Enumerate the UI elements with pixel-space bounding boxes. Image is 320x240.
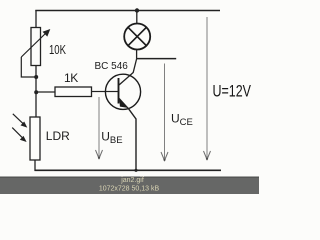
junction dot emitter to bottom rail bbox=[134, 169, 137, 172]
svg-text:BC 546: BC 546 bbox=[95, 61, 129, 72]
transistor base wire inside circle bbox=[106, 91, 119, 93]
emitter wire to bottom rail bbox=[128, 109, 136, 171]
top rail wire bbox=[35, 10, 220, 12]
transistor base bar bbox=[118, 78, 120, 104]
resistor R2 1K body bbox=[55, 87, 92, 97]
wire top rail corner down to potentiometer bbox=[35, 10, 37, 28]
LDR light arrow 2 bbox=[12, 128, 26, 142]
wire pot bottom through junctions to LDR bbox=[35, 66, 37, 118]
UBE measurement arrow bbox=[96, 97, 103, 159]
potentiometer wiper return wire bbox=[21, 57, 36, 77]
svg-text:1K: 1K bbox=[64, 71, 78, 85]
UCE measurement arrow bbox=[161, 64, 168, 161]
supply measurement arrow for U=12V bbox=[204, 17, 211, 160]
junction dot base node bbox=[34, 90, 38, 94]
svg-text:U=12V: U=12V bbox=[213, 82, 252, 101]
svg-text:jan2.gif: jan2.gif bbox=[120, 177, 144, 184]
wire 1K resistor to transistor base bbox=[92, 91, 106, 93]
lamp L1 circle with cross bbox=[124, 24, 150, 50]
collector wire down to transistor bbox=[119, 59, 137, 85]
wire lamp bottom to collector node bbox=[136, 50, 138, 59]
wire LDR to bottom rail bbox=[34, 160, 36, 171]
bottom rail wire bbox=[35, 169, 222, 171]
base wire from junction to 1K resistor bbox=[36, 91, 55, 93]
svg-text:10K: 10K bbox=[49, 42, 66, 57]
junction dot wiper node bbox=[34, 75, 38, 79]
transistor Q1 BC546 circle bbox=[105, 74, 140, 109]
transistor emitter with arrow bbox=[119, 98, 128, 108]
footer bar bbox=[0, 177, 259, 195]
collector node horizontal wire (UCE reference) bbox=[137, 58, 177, 60]
junction dot top rail to lamp bbox=[135, 8, 139, 12]
potentiometer wiper arrow bbox=[21, 29, 50, 57]
LDR body bbox=[30, 117, 40, 160]
LDR light arrow 1 bbox=[13, 114, 27, 128]
svg-text:1072x728 50,13 kB: 1072x728 50,13 kB bbox=[99, 186, 160, 193]
potentiometer R1 10K body bbox=[31, 28, 41, 66]
svg-text:LDR: LDR bbox=[46, 129, 70, 143]
wire top rail to lamp bbox=[136, 11, 138, 25]
